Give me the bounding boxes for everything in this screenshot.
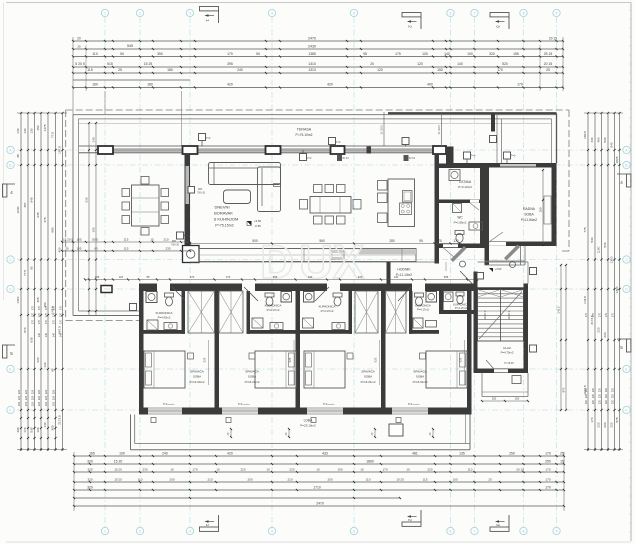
- svg-text:50 5: 50 5: [92, 238, 98, 242]
- svg-text:115: 115: [124, 247, 129, 251]
- entrance south wall: [478, 369, 529, 374]
- column marker d: [404, 155, 409, 161]
- terrace slab edge bottom-left: [73, 315, 142, 317]
- svg-text:160: 160: [92, 83, 98, 87]
- svg-text:10: 10: [316, 468, 320, 472]
- svg-text:2470: 2470: [316, 501, 324, 505]
- column marker b: [329, 138, 336, 145]
- chair bottom2: [337, 216, 346, 224]
- left dimension ticks: [20, 112, 22, 114]
- svg-text:355: 355: [444, 275, 449, 279]
- svg-text:E: E: [625, 367, 627, 371]
- svg-text:700+35: 700+35: [171, 243, 180, 246]
- svg-text:140: 140: [59, 332, 62, 337]
- svg-text:HODNIK: HODNIK: [397, 268, 411, 272]
- svg-text:15: 15: [150, 238, 154, 242]
- svg-text:SPAVAĆA: SPAVAĆA: [245, 369, 259, 374]
- section marker 5 left: [3, 345, 7, 358]
- svg-text:170: 170: [545, 468, 550, 472]
- stair break marks: [478, 290, 501, 298]
- stair bathroom walls: [439, 284, 444, 314]
- svg-text:5: 5: [353, 529, 355, 533]
- right wing terrace inner edge: [501, 119, 503, 163]
- svg-text:320: 320: [87, 486, 93, 490]
- svg-text:420: 420: [327, 83, 333, 87]
- grid axis circles left: [7, 146, 14, 153]
- terrace slab edge right end: [556, 114, 558, 164]
- svg-text:10 20: 10 20: [396, 478, 404, 482]
- svg-text:15 20: 15 20: [114, 460, 123, 464]
- svg-text:2430: 2430: [308, 45, 316, 49]
- svg-text:170: 170: [59, 305, 62, 310]
- svg-text:BORAVAK: BORAVAK: [214, 211, 233, 216]
- column marker f: [504, 152, 511, 159]
- svg-text:130: 130: [308, 275, 313, 279]
- svg-text:400: 400: [58, 247, 62, 252]
- svg-text:220: 220: [24, 401, 28, 406]
- watermark DUX: [260, 235, 364, 288]
- section marker 4 left: [3, 184, 7, 197]
- svg-text:220: 220: [611, 387, 614, 392]
- coffee table: [224, 190, 251, 204]
- svg-text:KUPAONICA: KUPAONICA: [319, 305, 336, 309]
- svg-text:SOBA: SOBA: [416, 375, 424, 379]
- svg-text:520: 520: [502, 62, 508, 66]
- svg-text:635: 635: [36, 212, 40, 217]
- svg-text:20 15: 20 15: [544, 62, 553, 66]
- svg-text:100: 100: [467, 52, 473, 56]
- svg-text:3: 3: [189, 11, 191, 15]
- section marker 2 top: [402, 13, 421, 17]
- svg-text:110: 110: [138, 478, 143, 482]
- svg-text:B: B: [625, 163, 627, 167]
- svg-text:P=0: P=0: [471, 154, 476, 158]
- svg-text:150: 150: [437, 68, 443, 72]
- svg-text:10: 10: [266, 468, 270, 472]
- dining table 2: [310, 197, 351, 214]
- section marker 1 bottom: [200, 527, 219, 531]
- inner dim vertical right1: [542, 170, 544, 245]
- chair left: [122, 189, 130, 197]
- svg-text:DNEVNI: DNEVNI: [214, 205, 229, 210]
- svg-text:110: 110: [468, 468, 473, 472]
- svg-text:220: 220: [598, 399, 601, 404]
- svg-text:170: 170: [545, 478, 550, 482]
- svg-text:F: F: [10, 408, 12, 412]
- column marker c: [300, 154, 307, 161]
- svg-text:1313: 1313: [308, 68, 316, 72]
- svg-text:77.5: 77.5: [51, 132, 55, 138]
- mullion: [367, 147, 372, 154]
- svg-text:305: 305: [51, 425, 55, 430]
- svg-text:460: 460: [597, 137, 601, 142]
- svg-text:1100: 1100: [597, 246, 601, 253]
- svg-text:220: 220: [44, 401, 48, 406]
- svg-text:P=4.17m2: P=4.17m2: [455, 306, 467, 310]
- inner dim row left: [62, 241, 190, 243]
- stub marker: [490, 136, 497, 143]
- svg-text:10: 10: [170, 468, 174, 472]
- svg-text:10: 10: [406, 468, 410, 472]
- svg-text:KUPAONICA: KUPAONICA: [156, 311, 173, 315]
- svg-text:-0.35: -0.35: [254, 224, 261, 228]
- svg-text:481: 481: [412, 452, 418, 456]
- svg-text:170: 170: [227, 52, 233, 56]
- svg-text:240: 240: [237, 68, 243, 72]
- svg-text:515: 515: [107, 62, 113, 66]
- svg-text:433: 433: [322, 452, 328, 456]
- column T5: [433, 146, 446, 154]
- vestibule door A: [451, 246, 467, 262]
- chair top2: [314, 185, 323, 193]
- svg-text:170: 170: [59, 312, 62, 317]
- svg-text:305: 305: [36, 297, 40, 302]
- svg-text:MB: MB: [198, 187, 202, 191]
- ostava wc partition: [439, 200, 480, 204]
- svg-text:OSTAVA: OSTAVA: [459, 180, 472, 184]
- svg-text:P=14.00m2: P=14.00m2: [190, 380, 205, 384]
- kitchen island: [388, 179, 415, 227]
- svg-text:oznaka: oznaka: [242, 404, 250, 406]
- svg-text:220: 220: [44, 389, 48, 394]
- svg-text:D: D: [260, 235, 294, 288]
- svg-text:170: 170: [592, 312, 595, 317]
- svg-text:220: 220: [611, 393, 614, 398]
- svg-text:P=4.17m2: P=4.17m2: [321, 309, 334, 313]
- page border frame: [6, 2, 631, 4]
- svg-text:220: 220: [17, 401, 21, 406]
- top dimension ticks: [72, 40, 74, 42]
- wc toilet: [455, 231, 464, 235]
- svg-text:182.5: 182.5: [583, 131, 587, 139]
- svg-text:210: 210: [287, 478, 292, 482]
- bedroom east wall: [467, 284, 472, 415]
- svg-text:105: 105: [95, 275, 100, 279]
- svg-text:6: 6: [450, 529, 452, 533]
- svg-text:220: 220: [611, 399, 614, 404]
- svg-text:170: 170: [52, 312, 55, 317]
- svg-text:8: 8: [523, 11, 525, 15]
- wardrobe unit 1: [188, 291, 215, 333]
- stairs outline: [478, 290, 524, 342]
- svg-text:1: 1: [104, 11, 106, 15]
- svg-text:SPAVAĆA: SPAVAĆA: [413, 369, 427, 374]
- svg-text:530: 530: [30, 427, 34, 432]
- grid axis circles right: [623, 146, 630, 153]
- chair right: [161, 216, 169, 224]
- svg-text:P=4.17m2: P=4.17m2: [417, 308, 429, 312]
- svg-text:SPAVAĆA: SPAVAĆA: [190, 369, 204, 374]
- svg-text:10x17.2: 10x17.2: [508, 310, 511, 320]
- wardrobe unit 3: [355, 291, 378, 333]
- svg-text:7: 7: [474, 529, 476, 533]
- ostava washer: [449, 170, 460, 181]
- svg-text:220: 220: [44, 395, 48, 400]
- wc shower: [453, 204, 462, 213]
- svg-text:140: 140: [457, 62, 463, 66]
- porch outline: [481, 373, 483, 397]
- svg-text:55: 55: [147, 275, 150, 279]
- inner dim verticals left: [88, 123, 90, 315]
- svg-text:220: 220: [30, 389, 34, 394]
- svg-text:875: 875: [562, 387, 566, 392]
- loggia dim marks: [230, 429, 232, 437]
- column marker d2: [337, 155, 342, 161]
- svg-text:P=0: P=0: [307, 156, 312, 160]
- svg-text:220: 220: [585, 393, 588, 398]
- svg-text:95: 95: [419, 239, 423, 243]
- terrace slab edge top: [73, 114, 557, 116]
- svg-text:190: 190: [337, 468, 342, 472]
- porch slab below radna soba: [485, 260, 526, 262]
- bedroom north wall: [139, 284, 478, 292]
- svg-text:140: 140: [444, 52, 450, 56]
- svg-text:220: 220: [597, 327, 601, 332]
- inner dim vertical right2: [560, 265, 562, 410]
- svg-text:170: 170: [23, 427, 27, 432]
- svg-text:135: 135: [459, 452, 465, 456]
- right wing wall stub: [491, 114, 495, 132]
- svg-text:320: 320: [87, 460, 93, 464]
- stair treads: [478, 293, 524, 295]
- column marker e: [464, 152, 471, 159]
- svg-text:220: 220: [37, 395, 41, 400]
- svg-text:250: 250: [492, 397, 497, 401]
- column marker a: [199, 134, 206, 141]
- svg-text:170: 170: [605, 312, 608, 317]
- svg-text:220: 220: [30, 395, 34, 400]
- inner dim row center: [190, 243, 460, 245]
- svg-text:15 130 5: 15 130 5: [438, 125, 441, 135]
- svg-text:25: 25: [118, 68, 122, 72]
- svg-text:10 20: 10 20: [114, 478, 122, 482]
- svg-text:250: 250: [509, 452, 515, 456]
- radna soba west wall: [485, 163, 490, 265]
- svg-text:475: 475: [43, 217, 47, 222]
- svg-text:200: 200: [169, 478, 174, 482]
- svg-text:130: 130: [30, 128, 34, 133]
- section marker 2 bottom: [402, 522, 421, 526]
- right dimension ticks: [587, 112, 589, 114]
- svg-text:105: 105: [76, 247, 81, 251]
- svg-text:8: 8: [523, 529, 525, 533]
- svg-text:220: 220: [605, 399, 608, 404]
- svg-text:530: 530: [590, 237, 594, 242]
- svg-text:7: 7: [474, 11, 476, 15]
- svg-text:115: 115: [124, 238, 129, 242]
- grid axis horizontal lines: [17, 149, 621, 151]
- svg-text:120: 120: [377, 68, 383, 72]
- svg-text:2173.5: 2173.5: [58, 415, 62, 425]
- bed unit 4: [426, 351, 467, 388]
- radna soba door opening: [489, 242, 506, 246]
- svg-text:170: 170: [585, 312, 588, 317]
- svg-text:130: 130: [394, 275, 399, 279]
- svg-text:170: 170: [545, 486, 551, 490]
- east window marker2: [530, 345, 537, 352]
- svg-text:170: 170: [31, 305, 34, 310]
- svg-text:5: 5: [353, 11, 355, 15]
- svg-text:235: 235: [165, 247, 170, 251]
- svg-text:15 130 5: 15 130 5: [381, 125, 384, 135]
- top dimension block lines: [73, 40, 563, 42]
- column T2: [183, 146, 198, 154]
- svg-text:150: 150: [36, 125, 40, 130]
- svg-text:15: 15: [560, 460, 564, 464]
- svg-text:6: 6: [450, 11, 452, 15]
- svg-text:X: X: [333, 235, 364, 288]
- svg-text:90: 90: [30, 266, 34, 270]
- svg-text:SOBA: SOBA: [524, 213, 534, 217]
- svg-text:25: 25: [560, 452, 564, 456]
- svg-text:230: 230: [142, 468, 147, 472]
- entrance window marker: [530, 268, 537, 275]
- island sink: [403, 191, 413, 203]
- svg-text:142.5: 142.5: [583, 296, 587, 304]
- svg-text:320: 320: [489, 52, 495, 56]
- svg-text:170: 170: [598, 312, 601, 317]
- loggia south wall: [131, 449, 471, 451]
- svg-text:680: 680: [51, 227, 55, 232]
- grid axis circles bottom: [101, 527, 108, 534]
- svg-text:20 15: 20 15: [549, 37, 557, 41]
- svg-text:105: 105: [92, 227, 96, 232]
- bed unit 1: [144, 351, 185, 388]
- svg-text:120: 120: [417, 62, 423, 66]
- stove square: [183, 246, 200, 263]
- svg-text:1385: 1385: [308, 52, 316, 56]
- svg-text:9: 9: [556, 529, 558, 533]
- svg-text:100: 100: [119, 452, 125, 456]
- svg-text:20: 20: [77, 37, 81, 41]
- svg-text:210: 210: [207, 478, 212, 482]
- svg-text:540: 540: [603, 242, 607, 247]
- wardrobe unit 4: [386, 291, 407, 333]
- svg-text:100: 100: [422, 52, 428, 56]
- svg-text:220: 220: [592, 399, 595, 404]
- bathroom unit 2 walls: [247, 330, 296, 334]
- svg-text:220: 220: [603, 422, 607, 427]
- vestibule door B: [504, 245, 520, 261]
- svg-text:220: 220: [24, 395, 28, 400]
- svg-text:180: 180: [147, 83, 153, 87]
- svg-text:155: 155: [513, 52, 519, 56]
- svg-text:115: 115: [423, 478, 428, 482]
- svg-text:P=16.21m2: P=16.21m2: [245, 380, 260, 384]
- svg-text:100: 100: [452, 478, 457, 482]
- svg-text:50: 50: [120, 52, 124, 56]
- svg-text:90: 90: [51, 368, 55, 372]
- svg-text:220: 220: [51, 401, 55, 406]
- svg-text:4: 4: [271, 11, 273, 15]
- svg-text:220: 220: [51, 395, 55, 400]
- svg-text:140: 140: [43, 422, 47, 427]
- svg-text:20: 20: [65, 247, 69, 251]
- section marker 3 top: [490, 13, 509, 17]
- svg-text:545: 545: [127, 44, 133, 48]
- wall marker upper: [188, 187, 195, 194]
- svg-text:P=75.10m2: P=75.10m2: [296, 133, 313, 137]
- svg-text:9: 9: [556, 11, 558, 15]
- chair left: [122, 202, 130, 210]
- chair left2: [300, 200, 308, 210]
- ostava west wall: [435, 154, 440, 264]
- dining table terrace: [132, 185, 160, 226]
- svg-text:220: 220: [427, 468, 432, 472]
- chair top: [141, 177, 149, 185]
- svg-text:25 15: 25 15: [544, 52, 553, 56]
- svg-text:250: 250: [515, 397, 520, 401]
- svg-text:KUPAONICA: KUPAONICA: [265, 304, 282, 308]
- svg-text:200: 200: [327, 478, 332, 482]
- ostava north wall: [439, 164, 485, 169]
- svg-text:20 15: 20 15: [516, 468, 524, 472]
- svg-text:140: 140: [45, 332, 48, 337]
- svg-text:1: 1: [104, 529, 106, 533]
- svg-text:P=3.10m2: P=3.10m2: [458, 185, 472, 189]
- svg-text:170: 170: [31, 319, 34, 324]
- level marker corridor: [489, 268, 493, 272]
- chair right2: [353, 200, 361, 210]
- svg-text:187.5: 187.5: [58, 146, 62, 154]
- svg-text:1825: 1825: [615, 156, 619, 163]
- svg-text:25: 25: [77, 45, 81, 49]
- section marker 1 top: [200, 7, 219, 11]
- wardrobe unit 2: [219, 291, 243, 333]
- vestibule marker: [477, 273, 484, 280]
- svg-text:120: 120: [36, 427, 40, 432]
- column marker b2: [402, 138, 409, 145]
- svg-text:ULAZ: ULAZ: [503, 346, 511, 350]
- svg-text:MB: MB: [172, 239, 176, 243]
- svg-text:220: 220: [289, 468, 294, 472]
- bathroom unit 2 fixtures: [281, 292, 292, 303]
- svg-text:S KUHINJOM: S KUHINJOM: [214, 217, 239, 222]
- svg-text:525: 525: [288, 357, 292, 362]
- svg-text:1475: 1475: [43, 124, 47, 131]
- svg-text:110: 110: [92, 52, 98, 56]
- wc sink: [469, 222, 483, 230]
- section marker 3 bottom: [490, 527, 509, 531]
- svg-text:490: 490: [16, 427, 20, 432]
- svg-text:1310: 1310: [308, 62, 316, 66]
- bedroom south wall: [139, 408, 472, 415]
- svg-text:170: 170: [192, 468, 197, 472]
- living west wall: [185, 154, 191, 246]
- chair right: [161, 189, 169, 197]
- svg-text:1300: 1300: [16, 296, 20, 303]
- svg-text:20: 20: [488, 478, 492, 482]
- porch dim cluster: [482, 400, 528, 402]
- bathroom unit 4 fixtures: [426, 292, 437, 303]
- svg-text:2: 2: [139, 529, 141, 533]
- svg-text:E: E: [9, 367, 11, 371]
- svg-text:10: 10: [360, 468, 364, 472]
- svg-text:700+35: 700+35: [197, 191, 206, 194]
- svg-text:140: 140: [43, 362, 47, 367]
- ostava door: [470, 200, 479, 203]
- svg-text:220: 220: [585, 387, 588, 392]
- svg-text:170: 170: [59, 319, 62, 324]
- stair diagonal: [479, 292, 522, 340]
- island stools: [378, 181, 388, 191]
- svg-text:30 Fd: 30 Fd: [409, 157, 416, 160]
- bathroom unit 3 fixtures: [304, 292, 315, 303]
- svg-text:635: 635: [30, 337, 34, 342]
- svg-text:P=4.17m2: P=4.17m2: [267, 308, 280, 312]
- svg-text:220: 220: [598, 393, 601, 398]
- svg-text:220: 220: [585, 399, 588, 404]
